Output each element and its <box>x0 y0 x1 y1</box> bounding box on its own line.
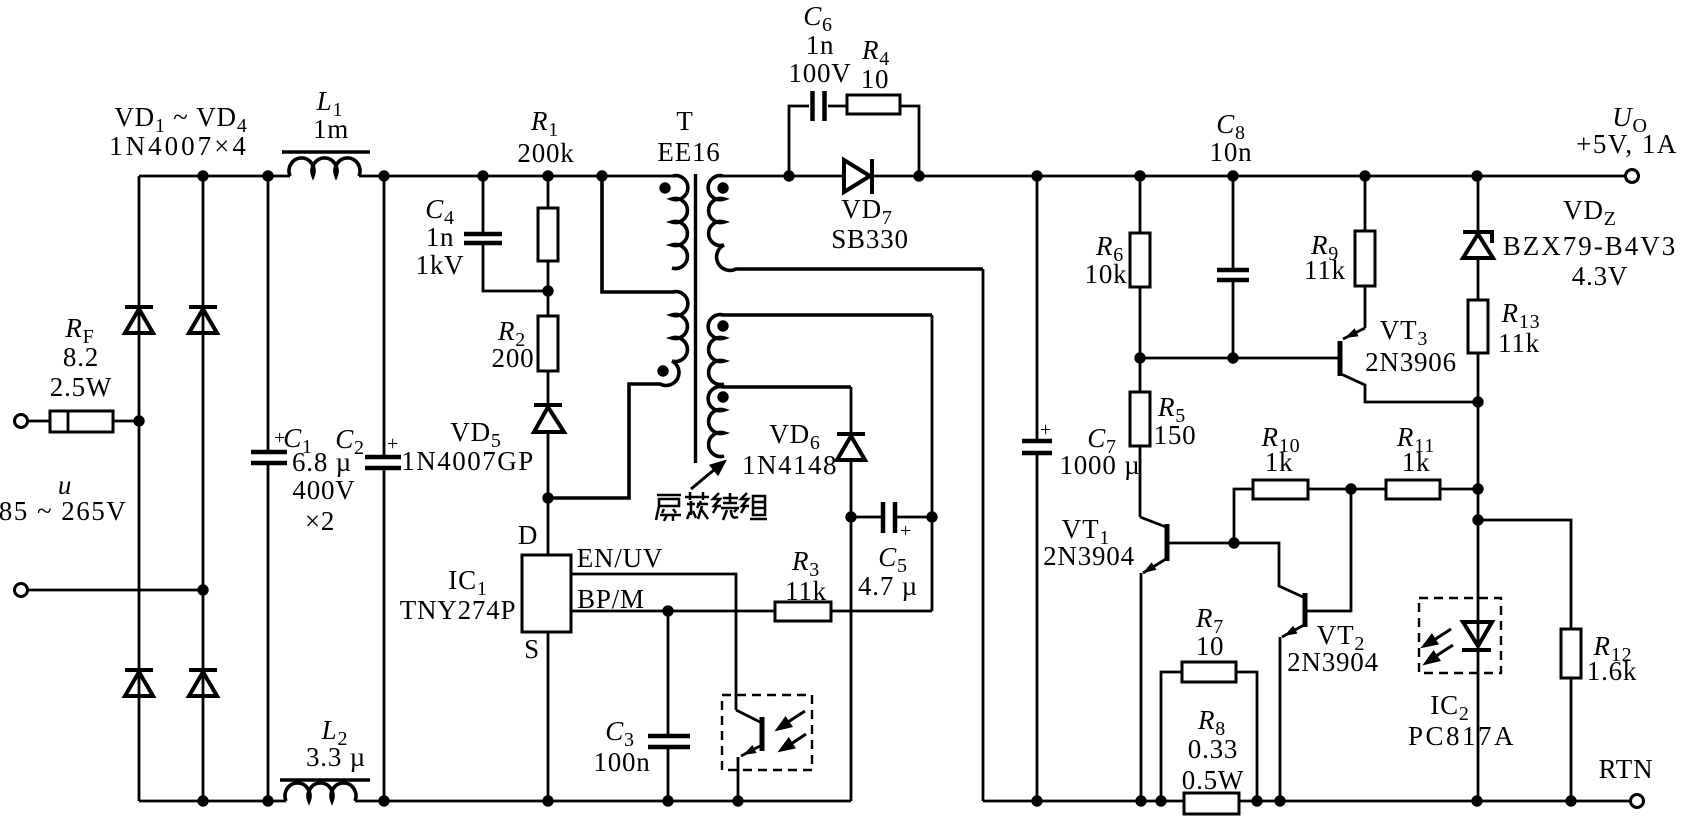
svg-text:10n: 10n <box>1210 137 1253 167</box>
svg-text:SB330: SB330 <box>831 224 909 254</box>
svg-text:8.2: 8.2 <box>63 342 99 372</box>
svg-text:1N4007GP: 1N4007GP <box>401 446 535 476</box>
svg-text:1kV: 1kV <box>416 250 465 280</box>
svg-text:1000 µ: 1000 µ <box>1059 450 1140 480</box>
svg-text:1k: 1k <box>1265 447 1294 477</box>
svg-text:+: + <box>387 433 399 455</box>
svg-text:D: D <box>518 520 538 550</box>
svg-text:1n: 1n <box>426 222 455 252</box>
svg-text:2N3904: 2N3904 <box>1287 647 1379 677</box>
svg-text:2N3904: 2N3904 <box>1043 541 1135 571</box>
svg-text:1k: 1k <box>1402 447 1431 477</box>
svg-text:100n: 100n <box>593 747 650 777</box>
svg-text:S: S <box>524 634 540 664</box>
svg-text:150: 150 <box>1154 420 1197 450</box>
svg-text:4.3V: 4.3V <box>1572 261 1628 291</box>
svg-text:TNY274P: TNY274P <box>400 595 517 625</box>
svg-text:EN/UV: EN/UV <box>577 543 664 573</box>
svg-text:1N4007×4: 1N4007×4 <box>109 131 249 161</box>
svg-text:×2: ×2 <box>305 506 335 536</box>
svg-text:11k: 11k <box>785 576 827 606</box>
svg-text:2.5W: 2.5W <box>50 372 112 402</box>
svg-text:BZX79-B4V3: BZX79-B4V3 <box>1503 231 1678 261</box>
svg-text:1m: 1m <box>313 114 349 144</box>
svg-text:2N3906: 2N3906 <box>1365 347 1457 377</box>
svg-text:100V: 100V <box>788 58 851 88</box>
svg-text:PC817A: PC817A <box>1408 721 1516 751</box>
svg-text:EE16: EE16 <box>657 137 720 167</box>
svg-text:+: + <box>900 520 912 542</box>
svg-text:RTN: RTN <box>1599 754 1654 784</box>
svg-text:200: 200 <box>492 343 535 373</box>
svg-text:1n: 1n <box>806 30 835 60</box>
svg-text:11k: 11k <box>1304 255 1346 285</box>
svg-text:11k: 11k <box>1498 328 1540 358</box>
svg-text:+: + <box>1040 419 1052 441</box>
svg-text:3.3 µ: 3.3 µ <box>306 742 366 772</box>
svg-text:10: 10 <box>1196 631 1225 661</box>
svg-text:BP/M: BP/M <box>577 584 645 614</box>
svg-text:4.7 µ: 4.7 µ <box>858 571 918 601</box>
svg-text:1.6k: 1.6k <box>1587 656 1637 686</box>
svg-text:400V: 400V <box>292 475 355 505</box>
svg-text:0.5W: 0.5W <box>1182 765 1244 795</box>
svg-text:10: 10 <box>861 64 890 94</box>
svg-text:1N4148: 1N4148 <box>742 450 838 480</box>
svg-text:+5V, 1A: +5V, 1A <box>1576 129 1678 159</box>
svg-text:T: T <box>676 106 693 136</box>
svg-text:0.33: 0.33 <box>1188 734 1238 764</box>
svg-text:6.8 µ: 6.8 µ <box>292 447 352 477</box>
svg-text:10k: 10k <box>1085 259 1128 289</box>
svg-text:85 ~ 265V: 85 ~ 265V <box>0 496 127 526</box>
svg-text:200k: 200k <box>517 138 574 168</box>
